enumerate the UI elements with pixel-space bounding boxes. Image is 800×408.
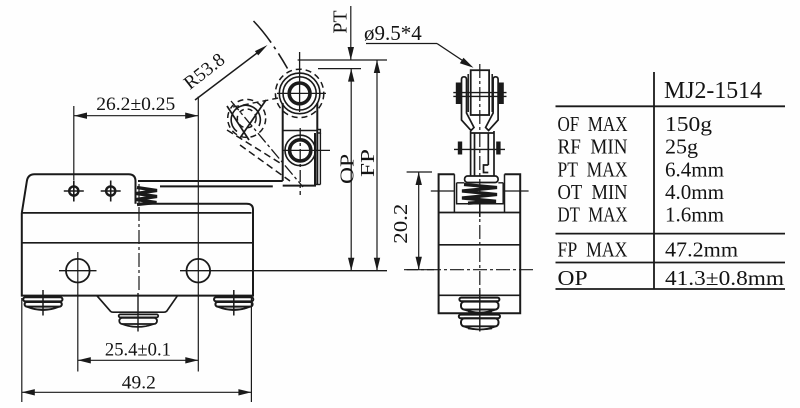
dimension 26.2 line with arrows xyxy=(74,113,198,119)
svg-text:DT MAX: DT MAX xyxy=(558,203,628,227)
middle view body outline xyxy=(439,174,521,313)
leader R53.8 xyxy=(195,45,268,100)
middle view shank pins xyxy=(458,142,501,155)
middle view spring xyxy=(462,185,497,204)
FP dimension line xyxy=(374,60,380,271)
lever top line xyxy=(138,180,283,182)
link corner step xyxy=(317,130,320,134)
free position lever edge dashed upper xyxy=(233,98,281,108)
mounting centerline extended to OP FP reference xyxy=(180,270,387,272)
middle view vertical centerline xyxy=(479,64,481,290)
middle view side hole centerline xyxy=(431,190,529,192)
svg-text:R53.8: R53.8 xyxy=(180,49,229,94)
svg-text:FP MAX: FP MAX xyxy=(558,238,628,262)
link outer right edge xyxy=(319,133,321,185)
svg-text:OT MIN: OT MIN xyxy=(558,180,628,204)
dimension 49.2 line with arrows xyxy=(22,389,252,395)
svg-text:OF MAX: OF MAX xyxy=(558,112,628,136)
svg-text:49.2: 49.2 xyxy=(122,374,156,394)
dimension 25.4 extension line left xyxy=(77,252,79,372)
table line 2 xyxy=(556,233,786,235)
mounting hole right xyxy=(187,259,211,283)
middle view horizontal centerline xyxy=(404,269,536,271)
middle view fork arms xyxy=(462,77,499,131)
lever bottom line xyxy=(160,185,273,187)
middle view roller xyxy=(468,70,492,115)
svg-text:25g: 25g xyxy=(665,135,699,159)
svg-text:ø9.5*4: ø9.5*4 xyxy=(364,21,422,45)
mounting hole left xyxy=(59,259,97,283)
middle view plunger shank xyxy=(471,131,494,176)
svg-text:1.6mm: 1.6mm xyxy=(665,203,724,227)
table line 1 xyxy=(556,105,786,107)
svg-text:47.2mm: 47.2mm xyxy=(665,238,738,262)
svg-text:26.2±0.25: 26.2±0.25 xyxy=(96,95,175,115)
svg-text:RF MIN: RF MIN xyxy=(558,135,628,159)
svg-text:20.2: 20.2 xyxy=(390,204,412,244)
upper roller xyxy=(275,52,326,118)
PT dimension upper arrow xyxy=(348,6,354,60)
free position fork solid edges xyxy=(227,106,249,140)
PT reference line top xyxy=(298,59,387,61)
dimension 20.2 ticks xyxy=(407,171,432,173)
svg-text:OP: OP xyxy=(337,154,359,184)
middle view bottom screw 1 xyxy=(459,298,499,313)
body parting line lower xyxy=(22,242,253,244)
svg-text:6.4mm: 6.4mm xyxy=(665,157,724,181)
leader dia 9.5 xyxy=(366,44,474,68)
plunger tip below spring xyxy=(479,204,481,217)
svg-text:PT MAX: PT MAX xyxy=(558,157,628,181)
terminal screw left xyxy=(23,290,62,316)
free position lever dashed edges xyxy=(227,130,280,163)
table line 4 xyxy=(556,288,786,290)
cover hole 2 xyxy=(101,181,121,202)
link split line xyxy=(283,130,318,132)
dimension 20.2 line xyxy=(416,172,422,270)
svg-text:FP: FP xyxy=(357,149,379,177)
middle view roller pin xyxy=(456,83,504,105)
trajectory arc R53.8 xyxy=(254,21,288,69)
middle view parting lines xyxy=(439,212,521,214)
cover hole 1 xyxy=(64,181,84,202)
terminal screw right xyxy=(214,290,253,316)
svg-text:150g: 150g xyxy=(665,112,713,136)
lower roller xyxy=(283,128,330,195)
table vertical line xyxy=(653,72,655,289)
OP dimension line xyxy=(348,69,354,271)
svg-text:25.4±0.1: 25.4±0.1 xyxy=(105,341,171,361)
free position centerline diagonal xyxy=(231,101,303,187)
roller link body xyxy=(283,103,318,186)
middle view boot seal xyxy=(465,176,499,183)
bottom plunger seat trapezoid xyxy=(97,296,177,312)
spring left view xyxy=(136,188,157,205)
left view body outline xyxy=(22,204,253,296)
PT reference line bottom xyxy=(318,68,361,70)
middle view ear inner edges xyxy=(454,174,504,212)
text labels xyxy=(96,95,175,394)
svg-text:MJ2-1514: MJ2-1514 xyxy=(664,78,762,104)
svg-text:OP: OP xyxy=(558,266,588,290)
free position roller dashed xyxy=(228,99,266,137)
bottom plunger screw xyxy=(119,293,159,332)
svg-text:PT: PT xyxy=(330,11,352,34)
dimension 25.4 line with arrows xyxy=(78,357,199,363)
table line 3 xyxy=(556,262,786,264)
terminal cover xyxy=(22,174,136,213)
dimension 26.2 extension lines xyxy=(73,106,75,180)
svg-text:4.0mm: 4.0mm xyxy=(665,180,724,204)
middle view pocket walls xyxy=(457,183,504,204)
dimension 49.2 extension lines xyxy=(21,298,23,402)
middle view bottom screw 2 xyxy=(459,315,500,330)
middle view screw centerline xyxy=(479,290,481,332)
svg-text:41.3±0.8mm: 41.3±0.8mm xyxy=(665,266,784,290)
plunger centerline left view xyxy=(138,184,140,291)
body parting line upper xyxy=(22,212,252,214)
